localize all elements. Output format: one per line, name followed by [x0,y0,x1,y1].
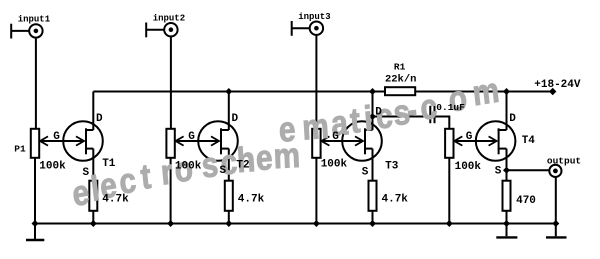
svg-text:22k/n: 22k/n [385,73,417,85]
svg-text:4.7k: 4.7k [102,194,129,206]
svg-text:S: S [82,167,89,179]
svg-text:100k: 100k [321,158,348,170]
svg-text:input3: input3 [298,12,330,22]
svg-text:D: D [509,113,516,125]
svg-text:input2: input2 [153,13,185,23]
svg-text:output: output [547,156,581,167]
svg-text:D: D [375,107,382,119]
svg-text:+18-24V: +18-24V [534,79,581,91]
svg-text:T3: T3 [385,161,399,173]
svg-text:G: G [332,131,339,143]
svg-text:S: S [219,165,226,177]
svg-text:input1: input1 [18,15,51,25]
svg-text:R1: R1 [394,62,406,73]
svg-text:T1: T1 [102,158,116,170]
svg-text:4.7k: 4.7k [382,194,409,206]
svg-text:100k: 100k [455,161,482,173]
svg-text:D: D [231,113,238,125]
svg-text:P1: P1 [14,143,26,154]
svg-text:D: D [96,113,103,125]
svg-text:G: G [188,131,195,143]
svg-text:4.7k: 4.7k [238,194,265,206]
svg-text:100k: 100k [175,161,202,173]
svg-text:S: S [495,166,502,178]
svg-text:100k: 100k [39,161,66,173]
svg-text:0.1uF: 0.1uF [436,102,465,113]
svg-text:T2: T2 [236,160,249,172]
svg-text:470: 470 [516,195,536,207]
svg-text:G: G [53,131,60,143]
svg-text:S: S [362,167,369,179]
svg-text:T4: T4 [522,135,536,147]
svg-text:G: G [466,131,473,143]
